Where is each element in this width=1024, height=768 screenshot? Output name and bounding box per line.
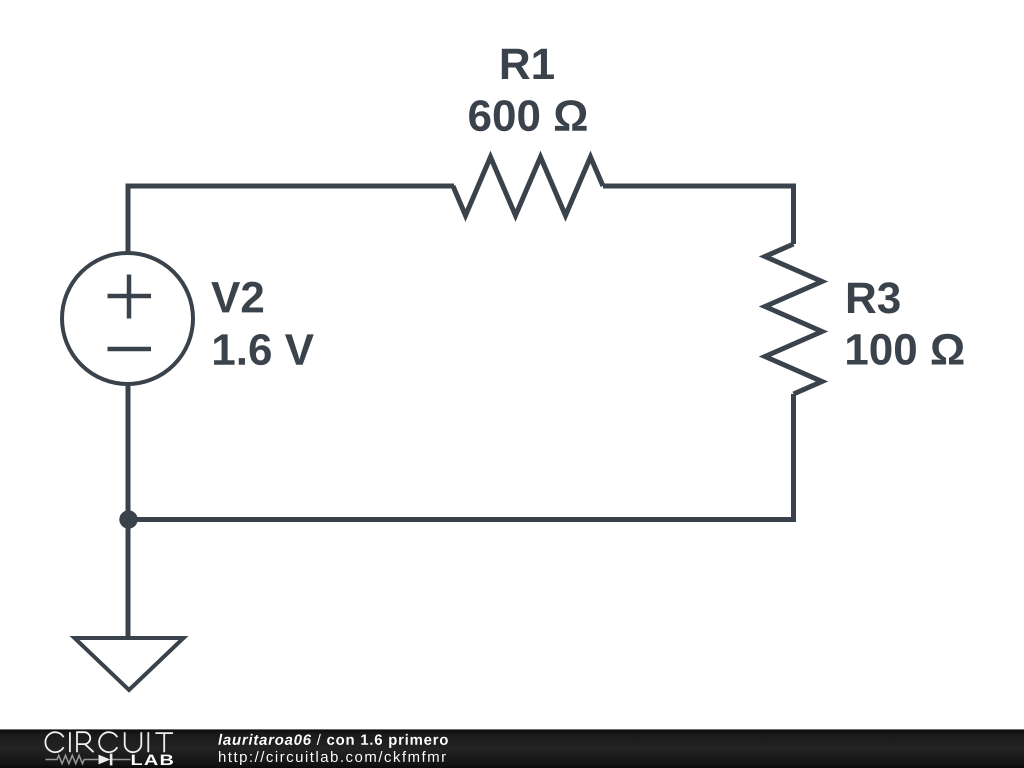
wire top-right from R1 right to R3 top [603, 186, 794, 244]
R1 name label [502, 49, 554, 79]
CircuitLab logo LAB [132, 755, 173, 765]
resistor R3 [765, 244, 822, 394]
R3 value label 100 ohm [847, 334, 963, 365]
V2 value label 1.6 V [214, 334, 314, 365]
footer url text [219, 751, 446, 765]
CircuitLab logo mini schematic: wire, resistor, diode [46, 755, 131, 763]
R1 value label 600 ohm [469, 100, 587, 131]
resistor R1 [453, 157, 603, 216]
CircuitLab logo CIRCUIT (hand-drawn thin geometric letters) [45, 732, 173, 752]
R3 name label [848, 282, 900, 313]
footer title text lauritaroa06 / con 1.6 primero [218, 734, 448, 748]
ground [75, 638, 184, 690]
footer bar [0, 729, 1024, 768]
wire right from R3 bottom down and along bottom rail to node [128, 394, 794, 520]
wire from V2 bottom to node [126, 384, 131, 520]
V2 name label [211, 282, 263, 313]
wire top-left from V2 top to R1 left [128, 186, 454, 252]
node junction dot [119, 510, 137, 528]
wire from node down to ground [126, 520, 131, 639]
voltage source V2 [62, 253, 193, 384]
